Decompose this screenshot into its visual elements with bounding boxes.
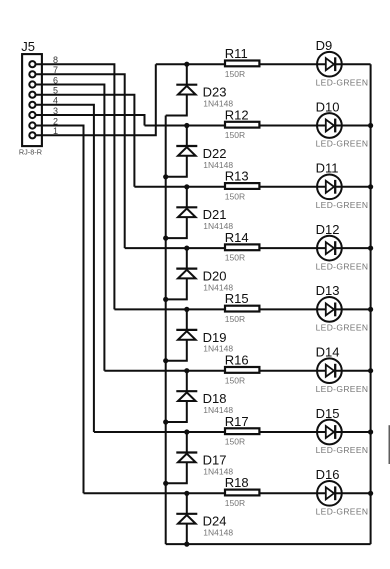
svg-text:LED-GREEN: LED-GREEN bbox=[316, 261, 369, 271]
wire J5 pin 2 to row 8 bbox=[36, 126, 84, 494]
junction right rail / row 8 bbox=[368, 491, 373, 496]
junction bus / D20 bbox=[163, 297, 168, 302]
resistor R16 bbox=[225, 367, 259, 373]
partial element at right edge bbox=[389, 425, 390, 464]
svg-text:D20: D20 bbox=[203, 269, 227, 284]
wire row 6 (R16 / D14) bbox=[104, 370, 370, 372]
wire bottom rail bbox=[166, 543, 371, 545]
junction bus / D18 bbox=[163, 419, 168, 424]
svg-text:D21: D21 bbox=[203, 207, 227, 222]
wire J5 pin 3 to row 2 bbox=[36, 115, 145, 126]
J5 pin 2 bbox=[29, 116, 58, 128]
svg-text:LED-GREEN: LED-GREEN bbox=[316, 323, 369, 333]
svg-text:LED-GREEN: LED-GREEN bbox=[316, 445, 369, 455]
svg-text:1N4148: 1N4148 bbox=[203, 528, 233, 538]
resistor R14 bbox=[225, 244, 259, 250]
junction row 5 / diode chain bbox=[184, 307, 189, 312]
wire J5 pin 6 to row 6 bbox=[36, 85, 104, 371]
diode D20 bbox=[166, 248, 198, 299]
J5 pin 3 bbox=[29, 106, 58, 118]
LED D14 bbox=[317, 358, 342, 383]
junction row 8 / diode chain bbox=[184, 491, 189, 496]
wire row 4 (R14 / D12) bbox=[125, 247, 371, 249]
LED D12 bbox=[317, 236, 342, 261]
svg-text:D23: D23 bbox=[203, 85, 227, 100]
wire J5 pin 5 to row 3 bbox=[36, 95, 134, 187]
svg-text:D17: D17 bbox=[203, 452, 227, 467]
svg-text:150R: 150R bbox=[225, 130, 245, 140]
LED D13 bbox=[317, 297, 342, 322]
svg-text:150R: 150R bbox=[225, 375, 245, 385]
junction row 1 / diode chain bbox=[184, 62, 189, 67]
svg-text:R14: R14 bbox=[225, 230, 249, 245]
wire row 1 (R11 / D9) bbox=[156, 63, 371, 65]
svg-text:150R: 150R bbox=[225, 314, 245, 324]
J5 pin 1 bbox=[29, 126, 58, 138]
junction bus / D22 bbox=[163, 174, 168, 179]
junction right rail / row 4 bbox=[368, 246, 373, 251]
junction row 4 / diode chain bbox=[184, 246, 189, 251]
wire row 7 (R17 / D15) bbox=[94, 431, 371, 433]
svg-text:R15: R15 bbox=[225, 291, 249, 306]
wire row 5 (R15 / D13) bbox=[114, 308, 370, 310]
svg-text:LED-GREEN: LED-GREEN bbox=[316, 507, 369, 517]
resistor R11 bbox=[225, 61, 259, 67]
junction right rail / row 2 bbox=[368, 123, 373, 128]
J5 pin 6 bbox=[29, 75, 58, 87]
wire J5 pin 8 to row 5 bbox=[36, 64, 114, 309]
junction bus / D19 bbox=[163, 358, 168, 363]
svg-text:D19: D19 bbox=[203, 330, 227, 345]
J5 pin 8 bbox=[29, 55, 58, 67]
diode D19 bbox=[166, 309, 198, 360]
wire J5 pin 4 to row 7 bbox=[36, 105, 94, 432]
svg-text:D16: D16 bbox=[316, 467, 340, 482]
LED D9 bbox=[317, 52, 342, 77]
svg-text:R13: R13 bbox=[225, 169, 249, 184]
J5 pin 5 bbox=[29, 86, 58, 98]
LED D16 bbox=[317, 481, 342, 506]
svg-text:150R: 150R bbox=[225, 253, 245, 263]
svg-text:R18: R18 bbox=[225, 475, 249, 490]
diode D24 bbox=[176, 493, 197, 544]
resistor R15 bbox=[225, 306, 259, 312]
svg-text:D9: D9 bbox=[316, 38, 333, 53]
wire row 2 (R12 / D10) bbox=[145, 125, 371, 127]
junction right rail / row 6 bbox=[368, 368, 373, 373]
svg-text:D10: D10 bbox=[316, 99, 340, 114]
junction right rail / row 3 bbox=[368, 184, 373, 189]
svg-text:D15: D15 bbox=[316, 406, 340, 421]
svg-text:R17: R17 bbox=[225, 414, 249, 429]
diode D21 bbox=[166, 187, 198, 238]
junction row 3 / diode chain bbox=[184, 184, 189, 189]
resistor R17 bbox=[225, 428, 259, 434]
wire common return bus bbox=[165, 116, 167, 545]
junction bus / D17 bbox=[163, 481, 168, 486]
connector J5 bbox=[19, 39, 42, 156]
svg-text:D12: D12 bbox=[316, 222, 340, 237]
LED D15 bbox=[317, 420, 342, 445]
svg-text:LED-GREEN: LED-GREEN bbox=[316, 77, 369, 87]
wire J5 pin 7 to row 4 bbox=[36, 74, 125, 248]
svg-text:150R: 150R bbox=[225, 191, 245, 201]
junction bus / D21 bbox=[163, 236, 168, 241]
diode D22 bbox=[166, 126, 198, 177]
svg-text:150R: 150R bbox=[225, 69, 245, 79]
resistor R12 bbox=[225, 122, 259, 128]
junction bottom rail / D24 bbox=[184, 542, 189, 547]
svg-text:D22: D22 bbox=[203, 146, 227, 161]
junction right rail / row 7 bbox=[368, 429, 373, 434]
diode D18 bbox=[166, 371, 198, 422]
svg-text:R12: R12 bbox=[225, 107, 249, 122]
resistor R13 bbox=[225, 183, 259, 189]
junction row 7 / diode chain bbox=[184, 429, 189, 434]
wire row 8 (R18 / D16) bbox=[84, 492, 371, 494]
svg-text:150R: 150R bbox=[225, 498, 245, 508]
resistor R18 bbox=[225, 490, 259, 496]
J5 pin 7 bbox=[29, 65, 58, 77]
wire row 3 (R13 / D11) bbox=[134, 186, 370, 188]
svg-text:D11: D11 bbox=[316, 161, 339, 176]
LED D11 bbox=[317, 174, 342, 199]
svg-text:R11: R11 bbox=[225, 46, 248, 61]
svg-text:LED-GREEN: LED-GREEN bbox=[316, 139, 369, 149]
svg-text:J5: J5 bbox=[21, 39, 35, 54]
svg-text:RJ-8-R: RJ-8-R bbox=[19, 148, 42, 157]
diode D17 bbox=[166, 432, 198, 483]
svg-text:150R: 150R bbox=[225, 437, 245, 447]
wire J5 pin 1 to row 1 bbox=[36, 64, 156, 135]
LED D10 bbox=[317, 113, 342, 138]
svg-text:R16: R16 bbox=[225, 353, 249, 368]
diode D23 bbox=[166, 64, 198, 115]
J5 pin 4 bbox=[29, 96, 58, 108]
svg-text:LED-GREEN: LED-GREEN bbox=[316, 200, 369, 210]
svg-text:D24: D24 bbox=[203, 514, 227, 529]
svg-text:D13: D13 bbox=[316, 283, 340, 298]
junction row 6 / diode chain bbox=[184, 368, 189, 373]
svg-text:D18: D18 bbox=[203, 391, 227, 406]
svg-text:LED-GREEN: LED-GREEN bbox=[316, 384, 369, 394]
junction right rail / row 5 bbox=[368, 307, 373, 312]
wire right vertical rail bbox=[370, 64, 372, 544]
svg-text:D14: D14 bbox=[316, 345, 340, 360]
junction row 2 / diode chain bbox=[184, 123, 189, 128]
